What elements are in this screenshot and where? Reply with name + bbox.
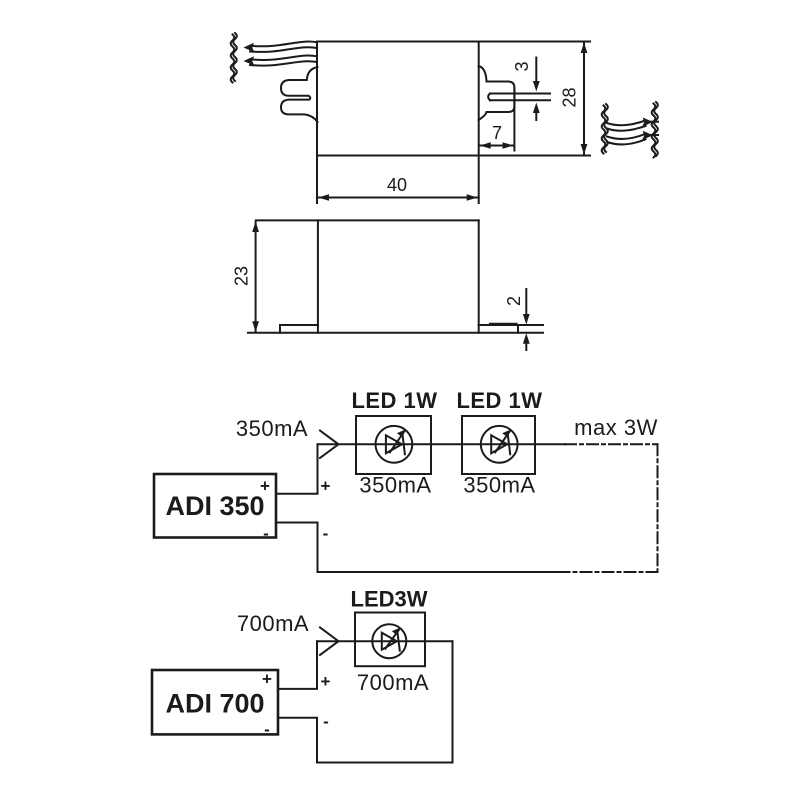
svg-text:-: - — [264, 720, 270, 739]
enclosure body right edge — [478, 220, 480, 332]
svg-text:7: 7 — [492, 123, 502, 143]
svg-text:700mA: 700mA — [357, 670, 429, 695]
driver ADI 700 box — [152, 670, 278, 734]
LED series wire — [318, 443, 566, 445]
wire minus output — [278, 718, 317, 763]
dimension line 7 — [480, 145, 514, 147]
svg-text:3: 3 — [512, 61, 532, 71]
LED 2 light arrow — [495, 431, 510, 452]
arrowhead down 28 — [581, 144, 588, 155]
arrowhead right (dim 7) — [503, 142, 514, 149]
arrowhead left (dim 7) — [480, 142, 491, 149]
arrowhead down (dim 2) — [523, 314, 530, 325]
bottom return wire (solid) — [318, 571, 558, 573]
dimension line 28 (right edge) — [583, 43, 585, 155]
current direction chevron — [320, 627, 339, 655]
extension line for dim 7 — [513, 88, 515, 151]
dimension 2 lower leader — [525, 343, 527, 350]
strain relief bump (right, with slot) — [479, 66, 515, 120]
svg-text:ADI 350: ADI 350 — [165, 491, 264, 521]
LED 1 light arrow — [390, 431, 405, 452]
wire (right side lower, inner stroke) — [607, 139, 646, 144]
right mounting flange top — [479, 324, 518, 326]
svg-text:+: + — [321, 477, 331, 496]
enclosure body top edge with extension line left — [256, 219, 479, 221]
internal divider line at 40mm with extension line down — [478, 42, 480, 204]
svg-text:max 3W: max 3W — [574, 415, 658, 440]
svg-text:350mA: 350mA — [463, 473, 535, 498]
LED 3 cathode bar — [397, 631, 400, 651]
LED 2 diode triangle — [491, 435, 507, 453]
arrowhead up (dim 2) — [523, 333, 530, 344]
svg-text:LED 1W: LED 1W — [351, 388, 437, 413]
slot lower line — [490, 99, 550, 101]
wire (right side lower, outer stroke) — [607, 134, 646, 139]
right mounting flange edge — [517, 325, 519, 333]
enclosure body left edge — [317, 220, 319, 332]
arrowhead up (dim 3) — [533, 103, 540, 114]
svg-text:350mA: 350mA — [236, 416, 308, 441]
dimension 3 upper leader line — [535, 58, 537, 83]
LED 3 diode triangle — [382, 633, 397, 650]
enclosure outline bottom edge — [317, 155, 590, 157]
wire minus output — [276, 523, 318, 573]
svg-text:23: 23 — [231, 266, 251, 286]
slot rounded left cap — [488, 94, 490, 101]
svg-text:700mA: 700mA — [237, 611, 309, 636]
cable break squiggle (right pair, right one) — [654, 102, 658, 156]
svg-text:40: 40 — [387, 175, 407, 195]
LED 1 circle — [376, 426, 413, 463]
right mounting flange top thick face — [489, 323, 518, 326]
svg-text:-: - — [323, 524, 329, 543]
dimension line 23 — [255, 221, 257, 331]
LED 2 cathode bar — [508, 434, 511, 455]
slot upper line — [490, 93, 550, 95]
LED wire — [317, 640, 453, 642]
wire (lower-left, outer stroke) — [250, 56, 317, 60]
dashed continuation wire (max load) — [565, 443, 658, 445]
svg-text:-: - — [323, 712, 329, 731]
arrowhead on right upper wire — [642, 118, 653, 127]
arrowhead right 40 — [467, 194, 478, 201]
left mounting flange top — [280, 324, 318, 326]
arrowhead down (dim 3) — [533, 81, 540, 92]
svg-text:+: + — [262, 670, 272, 689]
dimension line 40 — [317, 197, 479, 199]
svg-text:28: 28 — [559, 87, 579, 107]
enclosure left edge with extension line down — [316, 42, 318, 204]
right return wire — [452, 641, 454, 762]
svg-text:+: + — [321, 672, 331, 691]
dashed bottom return wire — [557, 571, 658, 573]
arrowhead up (dim 23) — [252, 221, 259, 232]
bottom return wire — [317, 762, 453, 764]
svg-text:ADI 700: ADI 700 — [165, 689, 264, 719]
wire (upper-left, inner stroke) — [250, 47, 317, 52]
wire stub through right squiggle (upper) — [646, 121, 658, 123]
LED 2 circle — [481, 426, 518, 463]
svg-text:+: + — [260, 477, 270, 496]
LED module 1 box — [356, 416, 431, 474]
current direction chevron — [320, 431, 339, 459]
svg-text:LED 1W: LED 1W — [456, 388, 542, 413]
arrowhead up 28 — [581, 43, 588, 54]
cable break squiggle (right pair, left one) — [604, 104, 608, 152]
dimension 2 upper leader — [525, 289, 527, 315]
LED module 3W box — [355, 613, 425, 667]
wire (right side upper, outer stroke) — [607, 121, 646, 126]
LED module 2 box — [462, 416, 535, 474]
driver ADI 350 box — [154, 474, 276, 538]
svg-text:-: - — [263, 524, 269, 543]
arrowhead on right lower wire — [642, 131, 653, 140]
svg-text:LED3W: LED3W — [351, 587, 428, 612]
wire plus output — [278, 641, 317, 689]
dimension 3 lower leader line — [535, 112, 537, 120]
arrowhead left 40 — [318, 194, 329, 201]
wire stub through right squiggle (lower) — [646, 134, 658, 136]
cable break squiggle (far left) — [233, 33, 237, 81]
left mounting flange edge — [279, 325, 281, 333]
cable grommet (left strain relief) — [281, 67, 318, 122]
base line — [248, 332, 543, 334]
arrowhead on upper-left wire — [244, 43, 255, 52]
wire (lower-left, inner stroke) — [250, 61, 317, 65]
LED 1 diode triangle — [386, 435, 402, 453]
wire (upper-left, outer stroke) — [250, 42, 317, 47]
svg-text:2: 2 — [504, 296, 524, 306]
LED 3 light arrow — [385, 629, 399, 649]
extension line for dim 2 — [518, 324, 543, 326]
dashed right return wire — [657, 444, 659, 572]
svg-text:350mA: 350mA — [359, 473, 431, 498]
wire (right side upper, inner stroke) — [607, 126, 646, 131]
wire plus output — [276, 444, 318, 493]
arrowhead on lower-left wire — [244, 56, 255, 65]
LED 1 cathode bar — [402, 434, 405, 455]
arrowhead down (dim 23) — [252, 321, 259, 332]
enclosure outline top edge — [317, 41, 590, 43]
LED 3 circle — [372, 624, 406, 658]
